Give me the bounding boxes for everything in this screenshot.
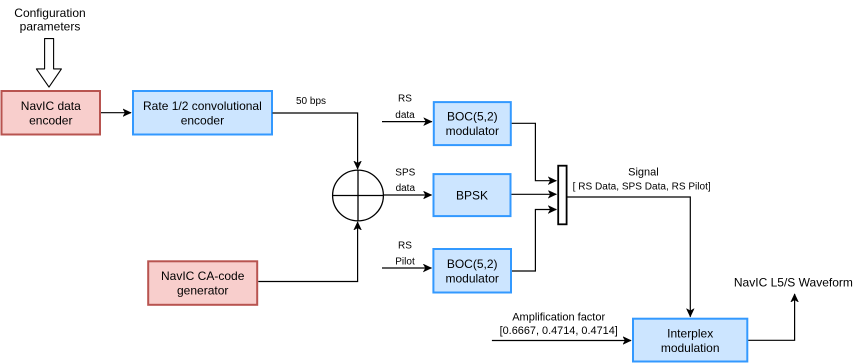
combiner bar (signal multiplexer) [558,166,566,225]
wire: Interplex modulation output (NavIC L5/S Waveform) [748,294,794,340]
svg-text:encoder: encoder [29,113,72,127]
svg-text:BOC(5,2): BOC(5,2) [447,110,498,124]
svg-text:Pilot: Pilot [395,257,415,268]
svg-text:generator: generator [177,284,228,298]
wire: top BOC modulator to combiner [512,123,557,180]
svg-text:data: data [395,110,415,121]
svg-text:data: data [396,183,416,194]
svg-text:NavIC data: NavIC data [21,99,81,113]
adder (modulo-2 sum) circle with cross [333,170,384,221]
svg-text:NavIC CA-code: NavIC CA-code [161,269,245,283]
block: BOC(5,2) modulator (bottom) [433,249,511,293]
svg-text:Signal: Signal [628,166,659,178]
svg-text:modulation: modulation [661,341,720,355]
svg-text:RS: RS [398,241,412,252]
svg-text:encoder: encoder [181,113,224,127]
svg-text:Amplification factor: Amplification factor [512,311,605,323]
wire: combiner to Interplex modulation (Signal) [568,197,691,317]
block: BPSK [434,174,511,216]
svg-text:Interplex: Interplex [667,326,713,340]
svg-text:Rate 1/2 convolutional: Rate 1/2 convolutional [143,99,262,113]
svg-text:SPS: SPS [395,168,415,179]
wire: convolutional encoder to adder (50 bps) [273,113,358,169]
edge label: SPS data [395,168,415,194]
wire: NavIC data encoder to convolutional encoder [101,112,131,114]
svg-text:RS: RS [398,94,412,105]
svg-text:50 bps: 50 bps [296,96,326,107]
wire: RS data input to top BOC modulator [382,121,432,123]
block: Rate 1/2 convolutional encoder [133,91,272,135]
edge label: RS data [395,94,415,121]
node label: Configuration parameters [14,6,85,34]
block: NavIC data encoder [2,91,101,135]
svg-text:modulator: modulator [446,124,499,138]
wire: CA-code generator to adder [258,222,357,282]
wire: BPSK to combiner [512,193,557,195]
svg-text:BPSK: BPSK [456,189,488,203]
svg-text:BOC(5,2): BOC(5,2) [447,257,498,271]
fat hollow down arrow (configuration input) [36,39,61,88]
block: NavIC CA-code generator [148,261,257,305]
svg-text:NavIC L5/S Waveform: NavIC L5/S Waveform [734,276,853,290]
wire: adder to BPSK (SPS data) [383,194,431,196]
wire: bottom BOC modulator to combiner [512,210,556,272]
svg-text:parameters: parameters [20,20,81,34]
svg-text:Configuration: Configuration [14,6,85,20]
edge label: RS Pilot [395,241,415,268]
svg-text:[ RS Data, SPS Data, RS Pilot]: [ RS Data, SPS Data, RS Pilot] [573,182,711,193]
block: Interplex modulation [633,319,747,362]
wire: amplification factor input to Interplex modulation [492,340,631,342]
block: BOC(5,2) modulator (top) [434,102,511,145]
svg-text:[0.6667, 0.4714, 0.4714]: [0.6667, 0.4714, 0.4714] [500,325,618,337]
svg-text:modulator: modulator [446,271,499,285]
wire: RS Pilot input to bottom BOC modulator [382,267,431,269]
